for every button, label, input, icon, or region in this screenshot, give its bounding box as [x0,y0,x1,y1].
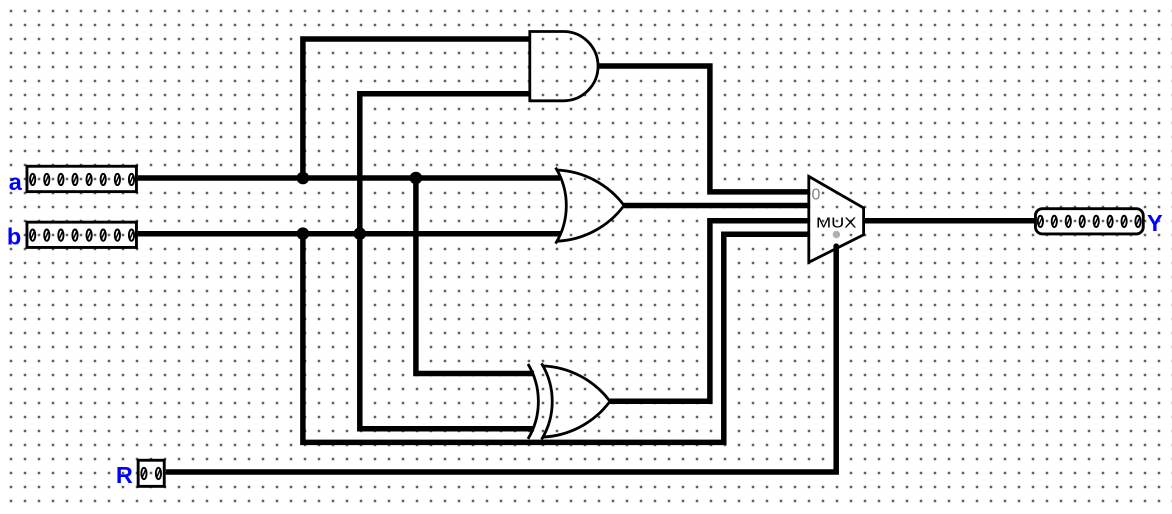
pin R box [138,460,164,486]
svg-text:b: b [7,224,21,250]
junction on wire a at x=302.9 [297,172,310,185]
wire R to MUX select [166,246,836,472]
MUX U1 body [809,176,864,262]
MUX select port dot [833,243,839,249]
wire MUX output to pin Y [864,218,1034,224]
wire AND output to MUX input 0 [598,66,809,192]
XOR gate body [543,366,610,437]
svg-text:MUX: MUX [816,214,857,231]
wire b horizontal run [138,231,560,237]
svg-text:Y: Y [1147,210,1163,236]
junction on wire b at x=302.9 [297,227,310,240]
pin R value zeros [141,468,161,479]
junction on wire a at x=415.9 [410,172,423,185]
wire XOR output to MUX input 2 [610,221,809,402]
junction on wire b at x=359.8 [354,227,367,240]
pin b box [27,222,137,247]
pin a value zeros [30,174,134,185]
OR gate [557,170,624,241]
XOR gate extra arc [528,364,538,439]
svg-text:a: a [9,169,23,195]
wire a horizontal run [138,175,560,181]
pin a box [27,166,137,191]
svg-text:R: R [116,462,133,488]
wire AND bottom input down to XOR bottom input [360,94,534,429]
wire a down to XOR top input [416,178,534,374]
MUX select gray dot [833,231,840,238]
pin Y box [1035,209,1143,234]
wire a to AND top input [303,39,530,178]
pin b value zeros [30,230,134,241]
pin Y value zeros [1038,216,1141,227]
wire b to MUX input 3 (bottom detour) [303,234,809,443]
AND gate [530,32,598,101]
wire OR output to MUX input 1 [624,203,809,209]
svg-text:0: 0 [812,186,821,203]
